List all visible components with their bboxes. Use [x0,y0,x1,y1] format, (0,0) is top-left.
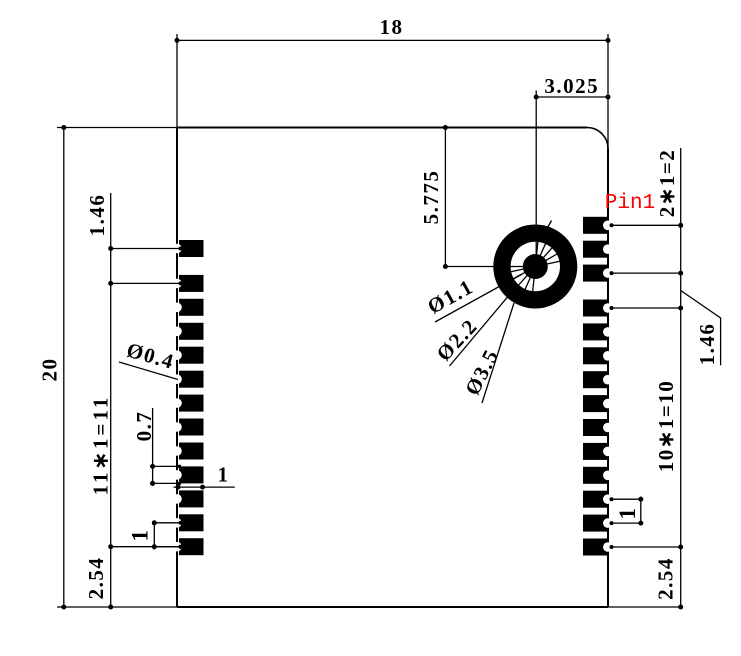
dim 1 pad width: dots [176,485,181,490]
label Ø1.1 leader [435,275,521,323]
left chain dots [108,246,113,251]
right ext pad14 centre [611,546,683,548]
svg-text:10∗1=10: 10∗1=10 [654,380,678,473]
mounting hole target Ø3.5 outer ring [493,225,577,309]
svg-text:2∗1=2: 2∗1=2 [655,149,679,218]
left castellated pads (13) [179,240,204,555]
dim 20: bottom extension (module bottom edge extended) [57,606,177,608]
module outline: rounded top-right corner [587,128,608,149]
dim 0.7: dimension line [152,408,154,486]
dim 1 pitch right: dots [638,497,643,502]
right ext pad4 centre [611,307,683,309]
dim 20: top extension (module top edge extended) [57,127,177,129]
dim 20: dimension line [63,128,65,608]
target stray spoke top-right [544,221,552,236]
label Ø3.5 leader [482,303,514,403]
module outline: bottom edge [177,606,608,608]
dim 1 pitch left: ext pad13 centre [152,546,181,548]
castellation half-holes Ø0.4 right [603,221,613,552]
module bottom edge extended right [608,606,683,608]
svg-text:11∗1=11: 11∗1=11 [89,395,113,496]
target white annulus [511,242,560,291]
label Ø0.4 leader [119,362,178,380]
target inner pad Ø1.1 [523,254,548,279]
dim 5.775: extension to hole centre [445,266,535,268]
svg-text:0.7: 0.7 [132,411,156,442]
dim 0.7: ext pad10 bottom [150,482,180,484]
dim 1 pitch right: dimension line [640,497,642,526]
left ext pad2 centre [109,282,182,284]
dim 0.7: dots [150,464,155,469]
svg-text:1.46: 1.46 [695,323,719,366]
left ext pad13 centre [109,546,182,548]
dim 5.775: dimension line [444,128,446,267]
svg-text:2.54: 2.54 [654,557,678,600]
svg-text:1: 1 [218,463,230,487]
dim 3.025: dimension line [536,96,608,98]
dim 18: right extension (module right edge extended) [607,34,609,149]
dim 1 pitch right: ext pad12 centre [611,498,643,500]
dim 1 pitch left: dimension line [153,521,155,550]
dim 1 pad width left: dimension line [174,486,235,488]
svg-text:1: 1 [128,529,153,542]
dim 1 pitch left: ext pad12 centre [152,522,181,524]
label Ø2.2 leader [450,285,519,367]
svg-text:1: 1 [615,507,640,520]
dim 18: endpoint dots [175,38,180,43]
svg-text:20: 20 [38,358,62,382]
svg-text:1.46: 1.46 [85,194,109,237]
castellation half-holes Ø0.4 left [172,244,182,552]
dim 0.7: ext pad10 top [150,465,180,467]
left ext pad1 centre [109,248,182,250]
target spokes SW [511,269,534,292]
right castellated pads (14) [583,217,608,556]
dim 1 pitch right: ext pad13 centre [611,522,643,524]
module outline: right edge [607,149,609,608]
right ext pad3 centre [611,272,683,274]
right chain dots [678,223,683,228]
svg-text:3.025: 3.025 [544,74,599,98]
module outline: left edge [176,128,178,608]
right dimension chain line (2*1=2 / 1.46 / 10*1=10 / 2.54) [680,148,682,607]
dim 1.46 right: leader [681,291,721,366]
dim 3.025: extension to hole centre [535,91,537,267]
svg-text:5.775: 5.775 [419,170,443,225]
svg-text:2.54: 2.54 [84,557,108,600]
svg-text:18: 18 [380,15,404,39]
module outline: top edge [177,127,587,129]
right ext pad1 centre [611,224,683,226]
dim 5.775: endpoint dots [443,125,448,130]
left dimension chain line (1.46 / 11*1=11 / 2.54) [110,193,112,607]
target spokes NE [537,242,560,265]
dim 1 pitch left: dots [152,520,157,525]
dim 18: dimension line [177,39,608,41]
svg-text:Pin1: Pin1 [605,192,655,215]
dim 18: left extension (module left edge extended) [176,34,178,128]
dim 20: endpoint dots [61,125,66,130]
dim 3.025: endpoint dots [534,95,539,100]
